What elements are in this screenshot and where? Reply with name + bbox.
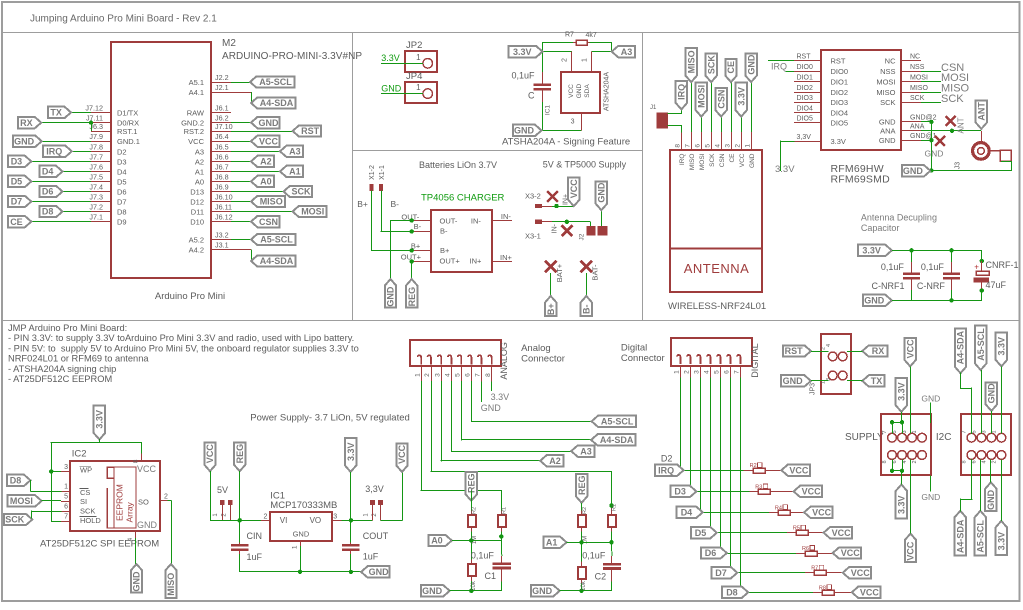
svg-text:VCC: VCC — [137, 464, 157, 474]
svg-text:J6.9: J6.9 — [215, 183, 229, 192]
svg-text:MOSI: MOSI — [910, 75, 928, 82]
svg-text:J2.1: J2.1 — [215, 83, 229, 92]
svg-text:D3: D3 — [11, 157, 23, 167]
svg-text:3.3V: 3.3V — [831, 137, 846, 146]
svg-text:4: 4 — [704, 370, 711, 374]
svg-text:SDA: SDA — [584, 84, 591, 98]
svg-text:VCC: VCC — [568, 84, 575, 98]
svg-text:A4-SDA: A4-SDA — [956, 330, 966, 364]
svg-text:Analog: Analog — [521, 343, 551, 354]
svg-text:DIO3: DIO3 — [831, 98, 849, 107]
svg-text:J7.8: J7.8 — [89, 142, 103, 151]
svg-text:3: 3 — [571, 119, 575, 126]
svg-text:GND: GND — [514, 126, 535, 136]
svg-text:GND: GND — [746, 54, 756, 75]
svg-text:A2: A2 — [260, 157, 272, 167]
svg-text:A4-SDA: A4-SDA — [260, 98, 294, 108]
svg-text:A4-SDA: A4-SDA — [260, 256, 294, 266]
svg-text:GND: GND — [921, 492, 940, 502]
svg-text:J6.8: J6.8 — [215, 172, 229, 181]
svg-text:X3-2: X3-2 — [525, 191, 541, 200]
svg-text:D5: D5 — [11, 177, 23, 187]
svg-text:MOSI: MOSI — [699, 153, 706, 170]
svg-text:A3: A3 — [621, 47, 633, 57]
svg-text:R2: R2 — [750, 463, 757, 469]
svg-text:SCK: SCK — [80, 506, 95, 515]
svg-text:GND.1: GND.1 — [117, 137, 140, 146]
svg-text:2: 2 — [424, 373, 431, 377]
svg-text:3: 3 — [694, 370, 701, 374]
svg-text:IC2: IC2 — [72, 449, 87, 460]
svg-text:SCK: SCK — [941, 93, 964, 105]
svg-text:3,3V: 3,3V — [365, 484, 384, 494]
svg-text:7: 7 — [882, 430, 888, 433]
svg-text:IRQ: IRQ — [771, 61, 787, 71]
svg-text:A5-SCL: A5-SCL — [260, 235, 293, 245]
svg-text:D7: D7 — [11, 197, 23, 207]
svg-text:2: 2 — [562, 58, 569, 62]
svg-text:Digital: Digital — [621, 343, 647, 354]
svg-text:7: 7 — [685, 144, 692, 148]
svg-text:VCC: VCC — [812, 508, 832, 518]
svg-text:3.3V: 3.3V — [381, 53, 400, 63]
svg-text:NRF024L01 or RFM69 to antenna: NRF024L01 or RFM69 to antenna — [8, 354, 149, 364]
svg-text:MISO: MISO — [910, 85, 928, 92]
svg-text:COUT: COUT — [363, 531, 389, 541]
svg-text:SCK: SCK — [5, 515, 25, 525]
svg-text:DIO2: DIO2 — [797, 85, 813, 92]
svg-text:B+: B+ — [357, 199, 368, 209]
svg-text:3: 3 — [981, 430, 987, 433]
svg-text:D7: D7 — [715, 568, 727, 578]
svg-text:DIO0: DIO0 — [831, 67, 849, 76]
svg-text:VCC: VCC — [906, 541, 916, 561]
svg-text:SCK: SCK — [880, 98, 895, 107]
svg-text:5: 5 — [705, 144, 712, 148]
svg-text:D11: D11 — [191, 208, 204, 217]
svg-text:D8: D8 — [117, 208, 127, 217]
svg-text:IN-: IN- — [501, 212, 512, 221]
svg-text:IC1: IC1 — [545, 105, 552, 116]
svg-text:VCC: VCC — [569, 179, 579, 199]
svg-text:D2: D2 — [117, 147, 127, 156]
svg-text:VCC: VCC — [259, 136, 279, 146]
svg-text:3.3V: 3.3V — [997, 337, 1007, 356]
svg-text:DIO1: DIO1 — [831, 78, 849, 87]
svg-text:RAW: RAW — [187, 108, 205, 117]
svg-text:B-: B- — [582, 305, 592, 315]
svg-text:3.3V: 3.3V — [897, 382, 907, 401]
svg-text:BAT-: BAT- — [591, 264, 600, 281]
svg-text:D1/TX: D1/TX — [117, 108, 138, 117]
svg-text:0,1uF: 0,1uF — [582, 551, 606, 561]
svg-text:Batteries LiOn 3.7V: Batteries LiOn 3.7V — [419, 160, 497, 170]
svg-text:CNRF-1: CNRF-1 — [986, 260, 1019, 270]
svg-text:D8: D8 — [726, 588, 738, 598]
svg-text:0,1uF: 0,1uF — [921, 262, 945, 272]
svg-text:10k: 10k — [471, 580, 477, 591]
svg-text:DIGITAL: DIGITAL — [750, 343, 760, 377]
svg-text:0,1uF: 0,1uF — [881, 262, 905, 272]
svg-text:MOSI: MOSI — [876, 78, 895, 87]
svg-text:VCC: VCC — [789, 465, 809, 475]
svg-text:3,3V: 3,3V — [797, 134, 812, 141]
svg-text:REG: REG — [467, 474, 477, 494]
svg-text:D5: D5 — [117, 177, 127, 186]
svg-text:GND: GND — [921, 393, 940, 403]
svg-text:GND: GND — [749, 153, 756, 168]
svg-text:Capacitor: Capacitor — [861, 223, 900, 233]
svg-text:M2: M2 — [222, 38, 236, 49]
svg-text:DIO1: DIO1 — [797, 75, 813, 82]
svg-text:7: 7 — [961, 430, 967, 433]
svg-text:D12: D12 — [190, 198, 204, 207]
svg-text:A5.2: A5.2 — [189, 236, 204, 245]
svg-text:ARDUINO-PRO-MINI-3.3V#NP: ARDUINO-PRO-MINI-3.3V#NP — [222, 51, 362, 62]
svg-text:TP4056 CHARGER: TP4056 CHARGER — [421, 193, 505, 204]
svg-text:R2: R2 — [472, 507, 478, 514]
svg-text:VI: VI — [280, 516, 288, 525]
svg-text:GND: GND — [259, 118, 280, 128]
svg-text:J3.1: J3.1 — [215, 240, 229, 249]
svg-text:NC: NC — [885, 56, 896, 65]
svg-text:1: 1 — [674, 370, 681, 374]
svg-text:IN+: IN+ — [470, 257, 483, 266]
svg-text:2: 2 — [991, 460, 997, 463]
svg-text:A0: A0 — [260, 177, 272, 187]
svg-text:J6.12: J6.12 — [215, 213, 233, 222]
svg-text:J7.10: J7.10 — [215, 122, 233, 131]
svg-text:MISO: MISO — [166, 573, 176, 596]
svg-text:EEPROM: EEPROM — [115, 484, 125, 521]
svg-text:J7.7: J7.7 — [89, 152, 103, 161]
svg-text:2: 2 — [735, 144, 742, 148]
svg-text:A0: A0 — [431, 536, 443, 546]
svg-text:JMP Arduino Pro Mini Board:: JMP Arduino Pro Mini Board: — [8, 323, 127, 333]
svg-text:MISO: MISO — [686, 50, 696, 73]
svg-text:1: 1 — [414, 373, 421, 377]
svg-text:B-: B- — [440, 227, 448, 236]
svg-text:J7.4: J7.4 — [89, 183, 103, 192]
svg-text:GND: GND — [293, 530, 310, 539]
svg-text:MISO: MISO — [876, 88, 895, 97]
svg-text:C2: C2 — [595, 572, 607, 582]
svg-text:CSN: CSN — [259, 217, 278, 227]
svg-text:1: 1 — [416, 53, 421, 62]
svg-text:REG: REG — [577, 476, 587, 496]
svg-text:ANA: ANA — [880, 127, 895, 136]
svg-text:DIO4: DIO4 — [831, 109, 849, 118]
svg-text:1: 1 — [581, 58, 588, 62]
svg-text:5: 5 — [971, 430, 977, 433]
svg-text:SI: SI — [80, 497, 87, 506]
svg-text:3.3V: 3.3V — [346, 442, 356, 461]
svg-text:4: 4 — [127, 537, 134, 541]
svg-text:GND: GND — [925, 149, 944, 159]
svg-text:1uF: 1uF — [247, 552, 263, 562]
svg-text:J7.2: J7.2 — [89, 203, 103, 212]
svg-text:A5-SCL: A5-SCL — [259, 77, 292, 87]
svg-text:1: 1 — [991, 430, 997, 433]
svg-text:6: 6 — [465, 373, 472, 377]
svg-text:A5-SCL: A5-SCL — [976, 520, 986, 553]
svg-text:JP3: JP3 — [810, 383, 817, 395]
svg-text:A5-SCL: A5-SCL — [976, 328, 986, 361]
svg-text:8: 8 — [675, 144, 682, 148]
svg-text:GND: GND — [783, 376, 804, 386]
svg-text:6: 6 — [64, 504, 68, 511]
svg-text:MOSI: MOSI — [301, 207, 324, 217]
svg-text:R7: R7 — [811, 566, 818, 572]
svg-text:J1: J1 — [650, 105, 657, 111]
svg-text:ATSHA204A - Signing Feature: ATSHA204A - Signing Feature — [502, 137, 630, 148]
svg-text:GND: GND — [864, 296, 885, 306]
svg-text:DIO0: DIO0 — [797, 64, 813, 71]
svg-text:R1: R1 — [502, 507, 508, 514]
svg-text:3.3V: 3.3V — [997, 532, 1007, 551]
svg-text:IN-: IN- — [552, 223, 559, 233]
svg-text:R8: R8 — [819, 585, 826, 591]
svg-text:5: 5 — [64, 494, 68, 501]
svg-text:MCP170333MB: MCP170333MB — [270, 500, 337, 511]
svg-text:47uF: 47uF — [986, 280, 1007, 290]
svg-text:CSN: CSN — [716, 90, 726, 109]
svg-text:GND: GND — [381, 84, 402, 94]
svg-text:GND: GND — [532, 586, 553, 596]
svg-text:1: 1 — [291, 545, 298, 549]
svg-text:REG: REG — [235, 444, 245, 464]
svg-text:6: 6 — [695, 144, 702, 148]
svg-text:VCC: VCC — [739, 153, 746, 167]
svg-text:TX: TX — [871, 376, 883, 386]
svg-text:1: 1 — [416, 83, 421, 92]
svg-text:3.3V: 3.3V — [736, 87, 746, 106]
svg-text:4: 4 — [981, 460, 987, 463]
svg-text:D7: D7 — [117, 198, 127, 207]
svg-text:Power Supply- 3.7 LiOn, 5V reg: Power Supply- 3.7 LiOn, 5V regulated — [250, 413, 409, 424]
svg-text:D6: D6 — [705, 548, 717, 558]
svg-text:GND: GND — [987, 383, 997, 404]
svg-text:Antenna Decupling: Antenna Decupling — [861, 213, 937, 223]
svg-text:J7.12: J7.12 — [85, 103, 103, 112]
svg-text:3.3V: 3.3V — [775, 164, 795, 175]
svg-text:A5-SCL: A5-SCL — [601, 417, 634, 427]
svg-text:RST.2: RST.2 — [184, 127, 204, 136]
svg-text:B+: B+ — [440, 246, 450, 255]
svg-text:VCC: VCC — [205, 444, 215, 464]
svg-text:R1: R1 — [612, 504, 618, 511]
svg-text:3.3V: 3.3V — [862, 246, 881, 256]
svg-text:3.3V: 3.3V — [897, 495, 907, 514]
svg-text:4: 4 — [445, 373, 452, 377]
svg-text:A0: A0 — [195, 177, 204, 186]
svg-text:7: 7 — [64, 514, 68, 521]
svg-text:D9: D9 — [117, 218, 127, 227]
svg-text:GND: GND — [597, 182, 607, 203]
svg-text:5: 5 — [714, 370, 721, 374]
svg-text:3.3V: 3.3V — [513, 47, 532, 57]
svg-text:C: C — [528, 90, 535, 100]
svg-text:D6: D6 — [117, 188, 127, 197]
svg-text:J7.5: J7.5 — [89, 172, 103, 181]
svg-text:4k7: 4k7 — [586, 32, 597, 39]
svg-text:GND: GND — [14, 136, 35, 146]
svg-text:Array: Array — [125, 501, 135, 522]
svg-text:J6.4: J6.4 — [215, 132, 229, 141]
svg-text:J6.5: J6.5 — [215, 142, 229, 151]
svg-text:Connector: Connector — [521, 354, 565, 365]
svg-text:1: 1 — [745, 144, 752, 148]
svg-text:3.3V: 3.3V — [95, 410, 105, 429]
svg-text:R6: R6 — [802, 546, 809, 552]
svg-text:VCC: VCC — [397, 444, 407, 464]
svg-text:GND: GND — [369, 567, 390, 577]
svg-text:GND: GND — [481, 403, 502, 413]
svg-text:RST: RST — [301, 126, 320, 136]
svg-text:A5.1: A5.1 — [189, 78, 204, 87]
svg-text:IRQ: IRQ — [679, 154, 686, 166]
svg-text:A1: A1 — [289, 167, 301, 177]
svg-text:A2: A2 — [195, 157, 204, 166]
svg-text:CSN: CSN — [719, 153, 726, 167]
svg-text:VCC: VCC — [188, 137, 204, 146]
svg-text:6: 6 — [724, 370, 731, 374]
svg-text:A3: A3 — [195, 147, 204, 156]
svg-text:J6.10: J6.10 — [215, 193, 233, 202]
svg-text:A4.1: A4.1 — [189, 88, 204, 97]
svg-text:GND: GND — [879, 118, 896, 127]
svg-text:GND: GND — [132, 571, 142, 592]
svg-text:ATSHA204A: ATSHA204A — [604, 72, 611, 111]
svg-text:MOSI: MOSI — [697, 85, 707, 108]
svg-text:D4: D4 — [681, 508, 693, 518]
svg-text:3: 3 — [64, 464, 68, 471]
svg-text:J6.7: J6.7 — [215, 162, 229, 171]
svg-text:ANA: ANA — [910, 124, 925, 131]
svg-text:A4-SDA: A4-SDA — [956, 519, 966, 553]
svg-text:WIRELESS-NRF24L01: WIRELESS-NRF24L01 — [668, 301, 766, 312]
svg-text:VCC: VCC — [832, 528, 852, 538]
svg-text:RST: RST — [831, 56, 846, 65]
svg-text:IRQ: IRQ — [46, 147, 62, 157]
svg-text:J7.6: J7.6 — [89, 162, 103, 171]
svg-text:J7.1: J7.1 — [89, 213, 103, 222]
svg-text:- PIN 5V: to supply 5V to Ard: - PIN 5V: to supply 5V to Arduino Pro Mi… — [8, 343, 359, 353]
svg-text:C1: C1 — [485, 571, 497, 581]
svg-text:DIO3: DIO3 — [797, 95, 813, 102]
svg-text:3.3V: 3.3V — [491, 392, 510, 402]
svg-text:D3: D3 — [674, 487, 686, 497]
svg-text:NC: NC — [910, 53, 920, 60]
svg-text:Arduino Pro Mini: Arduino Pro Mini — [155, 291, 225, 302]
svg-text:D3: D3 — [117, 157, 127, 166]
svg-text:3: 3 — [725, 144, 732, 148]
svg-text:5V: 5V — [217, 485, 228, 495]
svg-text:A1: A1 — [546, 538, 558, 548]
svg-text:SUPPLY: SUPPLY — [845, 432, 884, 443]
svg-text:1: 1 — [912, 430, 918, 433]
svg-text:5: 5 — [455, 373, 462, 377]
svg-text:RX: RX — [20, 118, 33, 128]
svg-text:D6: D6 — [42, 187, 54, 197]
svg-text:J3: J3 — [955, 162, 962, 170]
svg-text:R3: R3 — [755, 484, 762, 490]
svg-text:GND: GND — [879, 136, 896, 145]
svg-text:RST: RST — [797, 53, 812, 60]
svg-text:ANTENNA: ANTENNA — [684, 261, 750, 276]
svg-text:R7: R7 — [565, 32, 574, 39]
svg-text:SCK: SCK — [910, 95, 925, 102]
svg-text:ANT: ANT — [957, 117, 966, 133]
svg-text:4: 4 — [826, 344, 832, 347]
svg-text:A4.2: A4.2 — [189, 245, 204, 254]
svg-text:3: 3 — [333, 514, 337, 521]
svg-text:JP4: JP4 — [406, 71, 422, 82]
svg-text:8: 8 — [133, 459, 140, 463]
svg-text:DIO4: DIO4 — [797, 106, 813, 113]
svg-text:2: 2 — [164, 493, 168, 500]
svg-text:NSS: NSS — [880, 67, 895, 76]
svg-text:VCC: VCC — [851, 568, 871, 578]
svg-text:2: 2 — [264, 514, 268, 521]
svg-text:5V & TP5000 Supply: 5V & TP5000 Supply — [543, 159, 627, 169]
svg-text:RFM69SMD: RFM69SMD — [831, 174, 891, 186]
svg-text:2: 2 — [684, 370, 691, 374]
svg-text:D2: D2 — [661, 454, 673, 464]
svg-text:0,1uF: 0,1uF — [512, 71, 536, 81]
svg-text:3: 3 — [434, 373, 441, 377]
svg-text:SCK: SCK — [292, 187, 312, 197]
svg-text:NSS: NSS — [910, 64, 925, 71]
svg-text:D4: D4 — [42, 167, 54, 177]
svg-text:BAT+: BAT+ — [555, 263, 564, 282]
svg-text:ANALOG: ANALOG — [499, 342, 509, 380]
svg-text:D10: D10 — [190, 218, 204, 227]
svg-text:J2.2: J2.2 — [215, 73, 229, 82]
svg-text:RST: RST — [785, 346, 804, 356]
svg-text:D13: D13 — [190, 188, 204, 197]
svg-text:CE: CE — [726, 61, 736, 74]
svg-text:2: 2 — [912, 460, 918, 463]
svg-text:C-NRF: C-NRF — [917, 281, 945, 291]
svg-text:IN+: IN+ — [500, 253, 513, 262]
svg-text:A2: A2 — [549, 456, 561, 466]
svg-text:J7.9: J7.9 — [89, 132, 103, 141]
svg-text:WP: WP — [80, 466, 92, 475]
svg-text:10k: 10k — [581, 580, 587, 591]
svg-text:8: 8 — [961, 460, 967, 463]
svg-text:D4: D4 — [117, 167, 127, 176]
svg-text:R5: R5 — [793, 526, 800, 532]
svg-text:SO: SO — [138, 497, 149, 506]
svg-text:HOLD: HOLD — [80, 516, 101, 525]
svg-text:4: 4 — [715, 144, 722, 148]
svg-text:IRQ: IRQ — [658, 465, 674, 475]
svg-text:A1: A1 — [195, 167, 204, 176]
svg-text:1uF: 1uF — [363, 551, 379, 561]
svg-text:CE: CE — [729, 153, 736, 163]
svg-text:SCK: SCK — [709, 153, 716, 167]
svg-text:DIO5: DIO5 — [831, 119, 849, 128]
svg-text:0,1uF: 0,1uF — [471, 551, 495, 561]
svg-text:J3.2: J3.2 — [215, 231, 229, 240]
svg-text:X1-1: X1-1 — [379, 165, 386, 180]
svg-text:X3-1: X3-1 — [525, 232, 541, 241]
svg-text:J6.1: J6.1 — [215, 103, 229, 112]
svg-text:MISO: MISO — [689, 154, 696, 171]
svg-text:J6.11: J6.11 — [215, 203, 232, 212]
svg-text:Jumping Arduino Pro Mini Board: Jumping Arduino Pro Mini Board - Rev 2.1 — [30, 14, 217, 25]
